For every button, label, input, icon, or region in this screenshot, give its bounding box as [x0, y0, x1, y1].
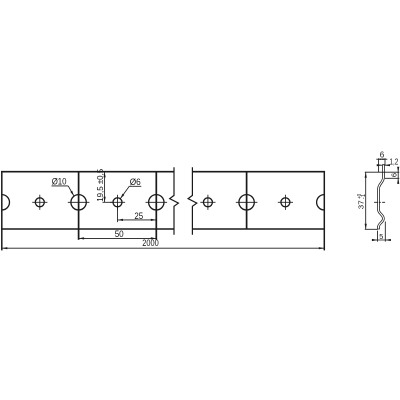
break line right [188, 167, 197, 234]
arrow 2000 left [2, 247, 8, 249]
arrow leader Ø10 [70, 191, 74, 196]
vertical line through large hole 1 (50 extension) [78, 172, 80, 240]
svg-text:1,2: 1,2 [390, 158, 399, 167]
dimension 25 extension [117, 205, 119, 222]
arrow 5 left [372, 239, 378, 241]
dimension 19.5 line [2, 172, 325, 249]
texts main view [52, 168, 159, 248]
arrow 37 bottom [365, 224, 367, 230]
centerline small hole 1 [32, 195, 293, 210]
strip bottom edge left segment [1, 228, 174, 230]
small hole 2 [113, 198, 122, 207]
dimension 37 line [365, 172, 367, 229]
svg-text:Ø6: Ø6 [130, 177, 141, 187]
strip top edge left segment [1, 171, 174, 173]
texts profile [357, 151, 399, 241]
dimension 5 extensions [377, 231, 379, 242]
centerline small hole 2 [110, 201, 125, 203]
arrow 1,2 left [377, 164, 383, 166]
arrow 50 left [79, 237, 85, 239]
arrow right6 bottom [397, 178, 399, 184]
centerline small hole 3 [200, 201, 215, 203]
large hole 3 [239, 195, 254, 210]
dimension right 6 line [397, 167, 399, 184]
arrow 50 right [151, 237, 157, 239]
arrows profile [365, 158, 400, 241]
arrow 25 left [118, 219, 124, 221]
dimension 2000 line [2, 247, 325, 249]
arrow 19.5 up [104, 172, 106, 178]
arrow 5 right [385, 239, 391, 241]
profile hole centerline [374, 201, 385, 203]
small hole 4 [281, 198, 290, 207]
leader Ø10 [52, 185, 69, 187]
dimension 5 line [372, 239, 391, 241]
svg-text:25: 25 [134, 211, 143, 221]
dimension top 6 line [376, 158, 387, 160]
arrow leader Ø6 [120, 194, 124, 199]
svg-text:50: 50 [115, 229, 124, 239]
arrow 25 right [151, 219, 157, 221]
dimension top 6 extensions [378, 158, 380, 172]
large hole 2 [149, 195, 164, 210]
strip top edge right segment [192, 171, 325, 173]
svg-text:6: 6 [380, 151, 385, 160]
centerline large hole 3 [236, 201, 258, 203]
arrow top6 right [382, 158, 386, 160]
extension line 37 bottom [365, 228, 378, 230]
half-hole notch right end [317, 195, 325, 210]
strip right end edge (also 2000 extension line) [323, 171, 325, 250]
arrows main view [2, 172, 325, 249]
break line left [170, 167, 179, 234]
arrow top6 left [377, 158, 381, 160]
dimension 25 line [118, 219, 157, 221]
small hole 1 [35, 198, 44, 207]
strip bottom edge right segment [192, 228, 325, 230]
svg-text:2000: 2000 [142, 238, 158, 248]
profile section body (double line) [379, 164, 384, 229]
arrow 37 top [365, 172, 367, 178]
small hole 3 [203, 198, 212, 207]
svg-text:-1: -1 [361, 194, 367, 199]
svg-text:5: 5 [379, 232, 383, 241]
svg-text:Ø10: Ø10 [52, 177, 67, 187]
centerline small hole 4 [278, 201, 293, 203]
strip left end edge (also 2000 extension line) [1, 171, 3, 250]
extension line right 6 lower [385, 177, 399, 179]
extension line top (37 / 6 shared) [365, 171, 400, 173]
centerline large hole 2 [146, 201, 168, 203]
arrow right6 top [397, 167, 399, 173]
large hole 1 [71, 195, 86, 210]
svg-text:6: 6 [390, 173, 399, 177]
svg-text:37: 37 [359, 200, 366, 209]
dimension 1,2 tails [377, 164, 383, 166]
half-hole notch left end [2, 195, 10, 210]
dimension 50 line [79, 237, 157, 239]
centerline large hole 1 [68, 201, 90, 203]
svg-text:19,5 ±0,5: 19,5 ±0,5 [96, 168, 105, 202]
arrow 19.5 down [104, 197, 106, 203]
leader Ø6 [129, 185, 141, 187]
vertical line through large hole 2 (50 extension) [155, 172, 157, 240]
vertical line through large hole 3 [246, 172, 248, 229]
arrow 2000 right [319, 247, 325, 249]
arrow 1,2 right [385, 164, 391, 166]
